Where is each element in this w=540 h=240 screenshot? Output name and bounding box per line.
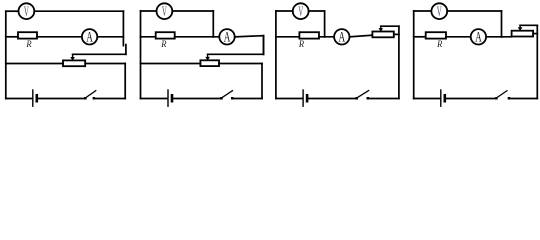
wire: middle segment R to ammeter (option B) <box>175 36 220 38</box>
wire: middle segment from ammeter (option D) <box>486 36 512 38</box>
resistor R (option D) <box>426 32 446 38</box>
wire: bottom segment battery to switch (option A) <box>39 98 85 100</box>
rheostat (slide resistor) (option D) <box>512 31 533 37</box>
wire: middle segment left-bus to R (option A) <box>6 36 18 38</box>
rheostat slider arrow (option C) <box>379 26 384 32</box>
wire: middle segment left-bus to R (option C) <box>276 36 300 38</box>
svg-text:A: A <box>339 30 346 46</box>
wire: bottom segment left-bus to battery (option D) <box>414 98 440 100</box>
ammeter A (option B) <box>219 29 234 46</box>
wire: top-right segment from voltmeter (option D) <box>447 10 501 12</box>
wire: middle segment left-bus to R (option B) <box>141 36 156 38</box>
battery cell (option C) <box>303 89 307 107</box>
svg-text:V: V <box>24 4 29 20</box>
rheostat slider arrow (option A) <box>70 54 75 61</box>
wire: top-right segment from voltmeter (option C) <box>309 10 325 12</box>
voltmeter V (option C) <box>293 3 309 20</box>
wire: top-right segment from voltmeter (option A) <box>34 10 123 12</box>
wire: middle segment R to ammeter (option A) <box>37 36 82 38</box>
battery cell (option A) <box>33 89 37 107</box>
svg-text:R: R <box>298 39 304 49</box>
svg-text:R: R <box>436 39 442 49</box>
rheostat (slide resistor) (option A) <box>63 60 85 66</box>
wire: top-left segment to voltmeter (option D) <box>414 10 432 12</box>
voltmeter V (option A) <box>19 3 35 20</box>
wire: bottom segment battery to switch (option C) <box>309 98 356 100</box>
rheostat (slide resistor) (option C) <box>372 32 393 38</box>
wire: outer right vertical (option B) <box>261 64 263 99</box>
wire: voltmeter branch right vertical (option C) <box>324 11 326 37</box>
wire: outer right vertical (option D) <box>536 25 538 98</box>
wire: bottom segment left-bus to battery (option C) <box>276 98 302 100</box>
switch S (option C) <box>356 90 370 99</box>
wire: rheostat row left segment (option B) <box>141 63 201 65</box>
wire: bottom segment left-bus to battery (option A) <box>6 98 32 100</box>
switch S (option B) <box>220 90 233 99</box>
wire: slider lead horizontal (option D) <box>520 24 537 26</box>
svg-text:R: R <box>160 39 166 49</box>
resistor R (option A) <box>18 32 37 38</box>
wire: left vertical bus (option B) <box>140 11 142 99</box>
wire: middle segment from ammeter (option B) <box>235 36 264 37</box>
wire: bottom segment battery to switch (option D) <box>447 98 496 100</box>
wire: middle segment from ammeter (option A) <box>97 36 123 38</box>
wire: bottom segment battery to switch (option B) <box>174 98 221 100</box>
rheostat slider arrow (option D) <box>518 25 523 31</box>
wire: slider branch vertical (option B) <box>263 36 265 54</box>
wire: bottom segment left-bus to battery (option B) <box>141 98 167 100</box>
voltmeter V (option B) <box>157 3 173 20</box>
wire: slider lead horizontal (option C) <box>381 25 399 27</box>
wire: middle segment R to ammeter (option D) <box>446 36 471 38</box>
svg-text:A: A <box>86 30 93 46</box>
battery cell (option B) <box>168 89 172 107</box>
wire: middle segment left-bus to R (option D) <box>414 36 426 38</box>
svg-text:A: A <box>224 30 231 46</box>
wire: bottom segment switch to right (option D) <box>510 98 537 100</box>
wire: ammeter-branch drop vertical (option B) <box>263 36 265 55</box>
svg-text:V: V <box>162 4 167 20</box>
wire: rheostat row right segment (option A) <box>85 63 125 65</box>
wire: top-left segment to voltmeter (option A) <box>6 10 19 12</box>
resistor R (option B) <box>156 32 175 38</box>
wire: bottom segment switch to right (option B) <box>234 98 262 100</box>
wire: left vertical bus (option C) <box>275 11 277 99</box>
wire: middle segment R to ammeter (option C) <box>319 36 334 38</box>
svg-text:V: V <box>437 4 442 20</box>
wire: slider branch vertical (option A) <box>125 45 127 55</box>
wire: top-left segment to voltmeter (option B) <box>141 10 157 12</box>
wire: slider lead horizontal (option B) <box>208 53 264 55</box>
wire: top-left segment to voltmeter (option C) <box>276 10 293 12</box>
wire: rheostat right stub (option C) <box>394 33 399 35</box>
battery cell (option D) <box>441 89 445 107</box>
wire: top-right segment from voltmeter (option B) <box>172 10 213 12</box>
rheostat slider arrow (option B) <box>205 54 210 60</box>
ammeter A (option D) <box>471 29 486 46</box>
svg-text:R: R <box>25 39 31 49</box>
ammeter A (option C) <box>334 29 349 46</box>
wire: voltmeter branch right vertical (option A) <box>122 11 124 45</box>
wire: outer right vertical (option C) <box>398 26 400 98</box>
wire: voltmeter branch right vertical (option D) <box>501 11 503 37</box>
wire: bottom segment switch to right (option A) <box>95 98 125 100</box>
wire: slider lead horizontal (option A) <box>73 53 126 55</box>
wire: rheostat right stub (option D) <box>533 33 537 35</box>
switch S (option A) <box>84 90 96 99</box>
rheostat (slide resistor) (option B) <box>200 60 219 66</box>
wire: outer right vertical (option A) <box>124 64 126 99</box>
svg-text:A: A <box>475 30 482 46</box>
wire: bottom segment switch to right (option C) <box>369 98 399 100</box>
switch S (option D) <box>495 90 510 99</box>
voltmeter V (option D) <box>431 3 447 20</box>
svg-text:V: V <box>298 4 303 20</box>
wire: voltmeter branch right vertical (option B) <box>212 11 214 37</box>
wire: rheostat row right segment (option B) <box>219 63 262 65</box>
wire: left vertical bus (option A) <box>5 11 7 98</box>
wire: middle segment from ammeter (option C) <box>350 35 373 37</box>
resistor R (option C) <box>299 32 319 38</box>
wire: left vertical bus (option D) <box>413 11 415 99</box>
wire: rheostat row left segment (option A) <box>6 63 63 65</box>
ammeter A (option A) <box>82 29 97 46</box>
